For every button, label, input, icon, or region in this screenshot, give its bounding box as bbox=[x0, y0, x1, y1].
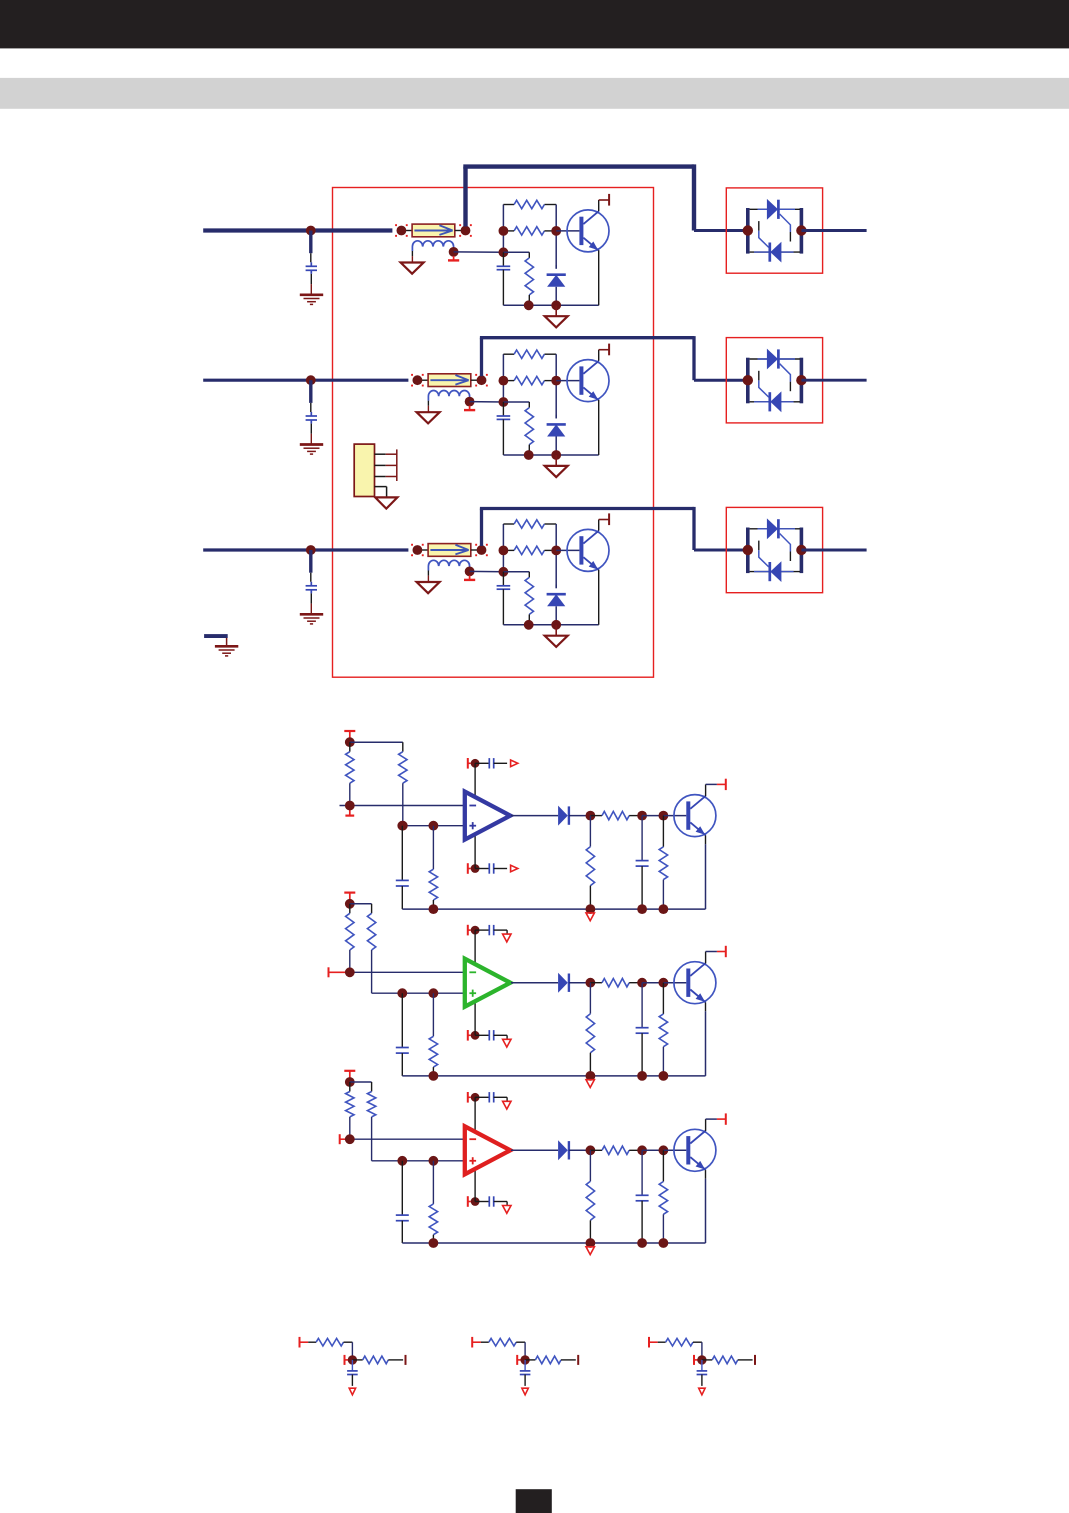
ground earth under C2a bbox=[300, 445, 323, 455]
node inverting blue bbox=[345, 801, 355, 811]
wire fuse right lead bbox=[471, 549, 482, 551]
phase L3 input wire bbox=[203, 548, 408, 551]
wire TR1 bottom rail bbox=[750, 251, 800, 253]
wire top resistor rail bbox=[503, 353, 556, 355]
node V+ red bbox=[471, 1093, 480, 1102]
wire output down leg bbox=[692, 164, 696, 230]
wire base resistor leads bbox=[503, 549, 556, 551]
top header bar bbox=[0, 0, 1069, 48]
capacitor filter blue bbox=[396, 826, 409, 909]
node rail res red bbox=[429, 1238, 439, 1248]
wire RC node to base node green bbox=[642, 982, 663, 984]
resistor load red bbox=[586, 1150, 594, 1243]
node diode out red bbox=[586, 1145, 596, 1155]
thyristor SCR2b bbox=[770, 391, 782, 412]
op-amp U-red bbox=[465, 1126, 511, 1174]
wire op-amp output blue bbox=[511, 815, 558, 817]
triac TR3 left terminal bar bbox=[746, 528, 750, 574]
node V+ blue bbox=[471, 759, 480, 768]
resistor RC3 output bbox=[712, 1356, 738, 1364]
node rail cap blue bbox=[637, 904, 647, 914]
node rail load blue bbox=[586, 904, 596, 914]
triac TR2 red outline box bbox=[726, 338, 822, 423]
wire RC2 out right bbox=[561, 1359, 576, 1361]
node base green bbox=[659, 978, 669, 988]
wire TR2 top rail bbox=[750, 358, 800, 360]
terminal RC2 tap bbox=[517, 1355, 525, 1365]
thyristor SCR1a bbox=[767, 199, 779, 220]
triac TR3 red outline box bbox=[726, 507, 822, 592]
wire emitter red bbox=[705, 1170, 707, 1243]
wire noninverting input blue bbox=[403, 825, 465, 827]
wire RC1 out left bbox=[352, 1359, 362, 1361]
node fuse F2 right bbox=[477, 375, 487, 385]
triac TR2 right terminal bar bbox=[800, 358, 804, 404]
terminal input red bbox=[340, 1134, 350, 1144]
fuse/current-sensor F1 bbox=[412, 224, 455, 237]
ground triangle under coil L1 bbox=[401, 263, 424, 274]
wire into triac box bbox=[694, 229, 748, 232]
wire L1 cap stub bbox=[309, 231, 312, 263]
wire node to resistor green bbox=[590, 982, 602, 984]
triac TR1 red outline box bbox=[726, 188, 822, 273]
wire into triac box bbox=[694, 549, 748, 552]
node fuse F2 left bbox=[413, 375, 423, 385]
node base red bbox=[659, 1145, 669, 1155]
pin marks fuse F3 right bbox=[475, 544, 488, 556]
wire fuse left lead bbox=[417, 549, 428, 551]
wire base blue bbox=[663, 815, 686, 817]
ground triangle snubber bbox=[545, 305, 568, 327]
node diode out green bbox=[586, 978, 596, 988]
wire Q3 emitter bbox=[598, 570, 600, 625]
node rail be blue bbox=[659, 904, 669, 914]
transistor Q2 bbox=[556, 360, 609, 402]
node TR3 left bbox=[743, 545, 753, 555]
wire coil node to snubber bbox=[470, 401, 504, 403]
capacitor C3b snubber bbox=[497, 572, 511, 625]
resistor RC1 output bbox=[363, 1356, 389, 1364]
wire supply to divider red bbox=[350, 1082, 372, 1092]
node TR3 right bbox=[796, 545, 806, 555]
wire snubber left vertical bbox=[502, 205, 504, 253]
node bottom diode D1 bbox=[551, 300, 561, 310]
terminal RC3 input bbox=[649, 1337, 658, 1348]
node L3 junction bbox=[306, 545, 316, 555]
wire right vertical to diode bbox=[555, 354, 557, 418]
node V- green bbox=[471, 1031, 480, 1040]
node plus-res green bbox=[429, 988, 439, 998]
node inverting green bbox=[345, 967, 355, 977]
resistor R3c snubber bbox=[525, 577, 533, 614]
thyristor SCR2a bbox=[767, 349, 779, 370]
terminal collector green bbox=[725, 946, 727, 957]
wire J1 pin 1 bbox=[375, 453, 397, 455]
wire SCR2b gate bbox=[759, 371, 769, 397]
diode D3 clamp bbox=[547, 585, 566, 625]
page number block bbox=[516, 1489, 552, 1513]
phase L1 input wire bbox=[203, 228, 392, 232]
ground arrow green bbox=[586, 1080, 594, 1088]
capacitor bypass top green bbox=[475, 925, 507, 935]
resistor R3a top bbox=[514, 520, 544, 528]
wire output down leg bbox=[692, 507, 695, 550]
resistor series blue bbox=[602, 811, 629, 819]
wire coil left lead bbox=[411, 251, 413, 262]
wire node to resistor blue bbox=[590, 815, 602, 817]
wire SCR1a gate bbox=[780, 214, 791, 242]
connector J1 body bbox=[354, 444, 374, 496]
wire RC2 out left bbox=[525, 1359, 535, 1361]
wire right vertical to diode bbox=[555, 524, 557, 588]
node RC blue bbox=[637, 811, 647, 821]
wire Q1 collector bbox=[599, 200, 609, 211]
node diode out blue bbox=[586, 811, 596, 821]
node fuse F1 left bbox=[397, 226, 407, 236]
resistor series red bbox=[602, 1146, 629, 1154]
inductor L2 sense coil bbox=[428, 390, 469, 400]
wire resistor to node green bbox=[629, 982, 642, 984]
node rail be red bbox=[659, 1238, 669, 1248]
node TR1 left bbox=[743, 225, 753, 235]
wire resistor to node red bbox=[629, 1149, 642, 1151]
node RC2 bbox=[520, 1355, 529, 1364]
wire base green bbox=[663, 982, 686, 984]
triac TR2 left terminal bar bbox=[746, 358, 750, 404]
resistor R2a top bbox=[514, 350, 544, 358]
resistor RC2 series bbox=[489, 1338, 516, 1346]
node rail load red bbox=[586, 1238, 596, 1248]
terminal V+ blue bbox=[468, 758, 471, 769]
wire noninverting input red bbox=[372, 1160, 465, 1162]
wire L2 cap stub bbox=[309, 380, 312, 412]
terminal collector blue bbox=[725, 779, 727, 790]
wire collector green bbox=[706, 952, 726, 964]
ground arrow RC1 bbox=[349, 1388, 355, 1395]
wire output riser bbox=[480, 338, 483, 377]
ground arrow RC3 bbox=[699, 1388, 705, 1395]
wire RC2 input bbox=[481, 1341, 489, 1343]
triac TR3 right terminal bar bbox=[800, 528, 804, 574]
wire snubber left vertical bbox=[502, 354, 504, 402]
terminal input green bbox=[329, 967, 350, 977]
capacitor RC2 bbox=[520, 1360, 531, 1386]
resistor load blue bbox=[586, 816, 594, 910]
wire base resistor leads bbox=[503, 230, 556, 232]
node bottom R2c bbox=[524, 450, 534, 460]
wire J1 pin bus bar bbox=[396, 449, 398, 481]
thyristor SCR3a bbox=[767, 518, 779, 539]
terminal V- green bbox=[468, 1030, 471, 1041]
node coil L1 output bbox=[449, 247, 459, 257]
capacitor C2b snubber bbox=[497, 402, 511, 455]
wire ground rail red bbox=[402, 1242, 705, 1244]
phase L2 input wire bbox=[203, 379, 408, 382]
node divider mid blue bbox=[398, 821, 408, 831]
resistor R1b base bbox=[514, 227, 544, 235]
node plus-cap red bbox=[397, 1156, 407, 1166]
wire RC node to base node red bbox=[642, 1149, 663, 1151]
node rail cap red bbox=[637, 1238, 647, 1248]
node V- red bbox=[471, 1197, 480, 1206]
pin marks fuse F1 left bbox=[395, 224, 408, 237]
wire RC3 out left bbox=[702, 1359, 712, 1361]
node RC1 bbox=[348, 1355, 357, 1364]
pin marks fuse F3 left bbox=[411, 544, 424, 556]
capacitor bypass bottom green bbox=[475, 1030, 507, 1040]
node coil L3 output bbox=[465, 567, 475, 577]
wire ground rail blue bbox=[402, 908, 705, 910]
node rail be green bbox=[659, 1071, 669, 1081]
terminal RC2 output bar bbox=[577, 1355, 579, 1365]
resistor divider left blue bbox=[346, 742, 354, 805]
node rail res green bbox=[429, 1071, 439, 1081]
node snubber mid bbox=[499, 397, 509, 407]
wire coil node to snubber bbox=[470, 570, 504, 572]
terminal red tap under coil node bbox=[448, 256, 459, 261]
node bottom diode D3 bbox=[551, 620, 561, 630]
pin marks fuse F1 right bbox=[459, 224, 472, 237]
wire Q2 collector bbox=[599, 350, 609, 361]
wire RC1 out right bbox=[388, 1359, 403, 1361]
resistor base-emitter red bbox=[659, 1150, 667, 1243]
resistor R1a top bbox=[514, 200, 544, 208]
terminal Q2 collector bar bbox=[608, 344, 610, 356]
wire inverting input green bbox=[350, 971, 465, 973]
node snubber mid bbox=[499, 247, 509, 257]
capacitor RC3 bbox=[697, 1360, 708, 1386]
resistor R1c snubber bbox=[525, 258, 533, 295]
wire snubber bottom rail bbox=[503, 624, 598, 626]
fuse/current-sensor F2 bbox=[428, 374, 471, 387]
node plus-cap green bbox=[397, 988, 407, 998]
node base blue bbox=[659, 811, 669, 821]
wire collector blue bbox=[706, 784, 726, 796]
resistor base-emitter green bbox=[659, 983, 667, 1076]
wire mid to R3c bbox=[503, 572, 529, 578]
node TR2 right bbox=[796, 375, 806, 385]
wire TR2 bottom rail bbox=[750, 401, 800, 403]
wire snubber bottom rail bbox=[503, 304, 598, 306]
ground triangle snubber bbox=[545, 625, 568, 647]
terminal red tap under coil node bbox=[464, 575, 475, 580]
resistor divider left green bbox=[346, 904, 354, 973]
wire output down leg bbox=[692, 336, 695, 380]
transistor Q3 bbox=[556, 529, 609, 571]
wire output top elbow bbox=[480, 507, 694, 510]
wire inverting input red bbox=[350, 1138, 465, 1140]
triac TR1 left terminal bar bbox=[746, 208, 750, 254]
terminal RC3 output bar bbox=[754, 1355, 756, 1365]
resistor load green bbox=[586, 983, 594, 1076]
node rail cap green bbox=[637, 1071, 647, 1081]
terminal V+ green bbox=[468, 925, 471, 936]
wire J1 pin 2 bbox=[375, 464, 397, 466]
net arrow bottom green bbox=[503, 1035, 511, 1047]
wire fuse left lead bbox=[401, 230, 412, 232]
wire diode to node red bbox=[569, 1149, 591, 1151]
wire right vertical to diode bbox=[555, 205, 557, 269]
diode D2 clamp bbox=[547, 415, 566, 455]
resistor divider left red bbox=[346, 1082, 354, 1139]
wire inverting input blue bbox=[340, 805, 465, 807]
resistor divider right red bbox=[367, 1092, 375, 1161]
capacitor bypass bottom red bbox=[475, 1196, 507, 1206]
wire neutral ground lead bbox=[226, 638, 228, 646]
wire emitter blue bbox=[705, 835, 707, 909]
resistor R2b base bbox=[514, 376, 544, 384]
terminal collector red bbox=[725, 1113, 727, 1124]
terminal input below node blue bbox=[345, 810, 354, 816]
wire R3c bottom lead bbox=[528, 614, 530, 624]
capacitor filter red bbox=[396, 1161, 409, 1243]
wire op-amp output green bbox=[511, 982, 558, 984]
wire ground rail green bbox=[402, 1075, 705, 1077]
terminal Q3 collector bar bbox=[608, 513, 610, 525]
resistor R3b base bbox=[514, 546, 544, 554]
terminal red tap under coil node bbox=[464, 406, 475, 411]
node L1 junction bbox=[306, 226, 316, 236]
terminal supply blue bbox=[344, 731, 355, 738]
terminal supply red bbox=[344, 1071, 355, 1078]
node RC3 bbox=[697, 1355, 706, 1364]
terminal RC3 tap bbox=[694, 1355, 702, 1365]
wire RC3 corner bbox=[693, 1342, 702, 1360]
capacitor to rail blue bbox=[636, 816, 649, 910]
triac TR1 right terminal bar bbox=[800, 208, 804, 254]
diode D1 clamp bbox=[547, 265, 566, 305]
wire L3 cap stub bbox=[309, 550, 312, 582]
ground triangle under coil L3 bbox=[417, 582, 440, 593]
capacitor C1b snubber bbox=[497, 252, 511, 305]
wire base red bbox=[663, 1149, 686, 1151]
wire output top elbow bbox=[463, 164, 694, 168]
wire op-amp output red bbox=[511, 1149, 558, 1151]
wire coil left lead bbox=[427, 571, 429, 582]
wire SCR1b gate bbox=[759, 221, 769, 247]
node R1b left bbox=[499, 226, 509, 236]
wire op-amp power pins red bbox=[474, 1097, 476, 1201]
terminal RC1 tap bbox=[345, 1355, 353, 1365]
wire coil left lead bbox=[427, 401, 429, 412]
ground triangle J1 bbox=[375, 497, 397, 508]
node bottom diode D2 bbox=[551, 450, 561, 460]
net arrow top green bbox=[503, 930, 511, 942]
wire RC3 out right bbox=[738, 1359, 753, 1361]
node R3b right / base bbox=[551, 546, 561, 556]
capacitor bypass top red bbox=[475, 1092, 507, 1102]
wire R1c bottom lead bbox=[528, 295, 530, 305]
wire fuse right lead bbox=[471, 379, 482, 381]
wire top resistor rail bbox=[503, 204, 556, 206]
resistor series green bbox=[602, 979, 629, 987]
node snubber mid bbox=[499, 567, 509, 577]
transistor Q1 bbox=[556, 210, 609, 252]
capacitor to rail green bbox=[636, 983, 649, 1076]
inductor L3 sense coil bbox=[428, 560, 469, 570]
wire RC3 input bbox=[658, 1341, 666, 1343]
pin marks fuse F2 right bbox=[475, 374, 488, 387]
wire resistor to node blue bbox=[629, 815, 642, 817]
node RC red bbox=[637, 1145, 647, 1155]
node L2 junction bbox=[306, 375, 316, 385]
wire TR1 top rail bbox=[750, 208, 800, 210]
capacitor C3a line filter bbox=[306, 582, 317, 615]
transistor Q-green bbox=[674, 962, 716, 1004]
wire TR3 output bbox=[801, 549, 866, 552]
wire emitter green bbox=[705, 1003, 707, 1076]
terminal Q1 collector bar bbox=[608, 194, 610, 206]
wire SCR2a gate bbox=[780, 364, 791, 392]
capacitor RC1 bbox=[347, 1360, 358, 1386]
node inverting red bbox=[345, 1134, 355, 1144]
wire RC1 corner bbox=[344, 1342, 353, 1360]
capacitor bypass top blue bbox=[475, 758, 507, 768]
node supply blue bbox=[345, 737, 355, 747]
resistor to rail green bbox=[429, 993, 437, 1076]
node TR2 left bbox=[743, 375, 753, 385]
node bottom R1c bbox=[524, 300, 534, 310]
node R2b right / base bbox=[551, 376, 561, 386]
terminal RC1 input bbox=[300, 1337, 309, 1348]
wire SCR3b gate bbox=[759, 541, 769, 567]
thyristor SCR3b bbox=[770, 561, 782, 582]
diode D-blue bbox=[558, 806, 569, 826]
diode D-green bbox=[558, 973, 569, 993]
node rail load green bbox=[586, 1071, 596, 1081]
capacitor bypass bottom blue bbox=[475, 863, 507, 873]
wire Q2 emitter bbox=[598, 400, 600, 455]
wire R2c bottom lead bbox=[528, 445, 530, 455]
node fuse F3 left bbox=[413, 545, 423, 555]
capacitor C2a line filter bbox=[306, 412, 317, 445]
node plus-res blue bbox=[429, 821, 439, 831]
terminal V- blue bbox=[468, 863, 471, 874]
ground earth under C1a bbox=[300, 295, 323, 305]
wire supply to divider blue bbox=[350, 742, 403, 752]
net arrow top blue bbox=[511, 760, 518, 767]
wire output top elbow bbox=[480, 336, 694, 339]
net arrow bottom red bbox=[503, 1202, 511, 1214]
resistor divider right blue bbox=[399, 752, 407, 826]
wire J1 pin 3 bbox=[375, 476, 397, 478]
wire op-amp power pins green bbox=[474, 930, 476, 1035]
wire RC node to base node blue bbox=[642, 815, 663, 817]
wire fuse left lead bbox=[417, 379, 428, 381]
resistor RC2 output bbox=[535, 1356, 561, 1364]
wire output riser bbox=[480, 509, 483, 547]
resistor base-emitter blue bbox=[659, 816, 667, 910]
capacitor to rail red bbox=[636, 1150, 649, 1243]
op-amp U-blue bbox=[465, 792, 511, 840]
wire TR3 bottom rail bbox=[750, 571, 800, 573]
fuse/current-sensor F3 bbox=[428, 544, 471, 557]
node fuse F1 right bbox=[461, 226, 471, 236]
diode D-red bbox=[558, 1140, 569, 1160]
pin marks fuse F2 left bbox=[411, 374, 424, 387]
wire TR2 output bbox=[801, 379, 866, 382]
node bottom R3c bbox=[524, 620, 534, 630]
resistor divider right green bbox=[367, 913, 375, 993]
wire noninverting input green bbox=[372, 992, 465, 994]
wire base resistor leads bbox=[503, 380, 556, 382]
ground earth neutral bbox=[215, 646, 238, 656]
transistor Q-red bbox=[674, 1129, 716, 1171]
wire op-amp power pins blue bbox=[474, 763, 476, 868]
node supply red bbox=[345, 1077, 355, 1087]
node plus-cap blue bbox=[397, 821, 407, 831]
capacitor C1a line filter bbox=[306, 262, 317, 295]
